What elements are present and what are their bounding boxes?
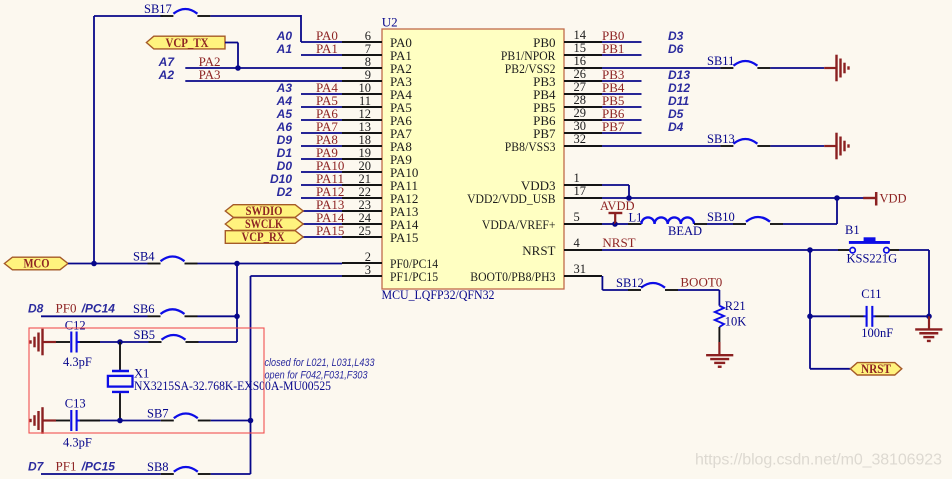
svg-text:D8: D8 [28, 302, 44, 316]
svg-text:A7: A7 [158, 55, 176, 69]
svg-text:C11: C11 [861, 287, 881, 301]
svg-text:D4: D4 [668, 120, 684, 134]
svg-text:15: 15 [574, 41, 587, 55]
svg-text:D1: D1 [277, 146, 293, 160]
svg-text:C12: C12 [65, 318, 86, 332]
svg-text:10: 10 [359, 81, 372, 95]
svg-text:D5: D5 [668, 107, 684, 121]
svg-text:PF0: PF0 [56, 301, 77, 316]
svg-text:PB7: PB7 [602, 119, 625, 134]
svg-text:SB10: SB10 [707, 210, 735, 224]
svg-text:C13: C13 [65, 397, 86, 411]
svg-text:SB17: SB17 [144, 2, 172, 16]
svg-text:3: 3 [365, 263, 371, 277]
svg-text:A5: A5 [276, 107, 293, 121]
svg-text:D9: D9 [277, 133, 293, 147]
svg-text:VCP_RX: VCP_RX [242, 230, 285, 244]
svg-text:D12: D12 [668, 81, 690, 95]
svg-text:21: 21 [359, 172, 372, 186]
svg-text:17: 17 [574, 184, 587, 198]
svg-text:PA3: PA3 [199, 67, 221, 82]
svg-text:SB6: SB6 [133, 302, 155, 316]
svg-text:BEAD: BEAD [668, 224, 702, 238]
svg-text:R21: R21 [725, 299, 746, 313]
svg-text:/PC15: /PC15 [81, 459, 116, 473]
svg-text:VDD: VDD [880, 192, 907, 206]
svg-text:11: 11 [359, 94, 371, 108]
svg-text:SB13: SB13 [707, 132, 735, 146]
svg-text:A4: A4 [276, 94, 293, 108]
svg-text:1: 1 [574, 171, 580, 185]
svg-text:SWDIO: SWDIO [246, 204, 283, 218]
svg-text:23: 23 [359, 198, 372, 212]
svg-text:12: 12 [359, 107, 372, 121]
svg-text:14: 14 [574, 28, 587, 42]
svg-text:18: 18 [359, 133, 372, 147]
svg-text:BOOT0: BOOT0 [680, 275, 722, 290]
svg-text:VCP_TX: VCP_TX [166, 36, 209, 50]
svg-text:2: 2 [365, 250, 371, 264]
svg-text:SB5: SB5 [134, 328, 156, 342]
svg-text:31: 31 [574, 262, 587, 276]
svg-text:D0: D0 [277, 159, 293, 173]
svg-text:open for F042,F031,F303: open for F042,F031,F303 [265, 369, 369, 381]
svg-text:D13: D13 [668, 68, 690, 82]
svg-text:A0: A0 [276, 29, 293, 43]
svg-text:PA1: PA1 [316, 41, 338, 56]
svg-text:4.3pF: 4.3pF [63, 355, 92, 369]
svg-text:PA15: PA15 [316, 223, 344, 238]
svg-text:29: 29 [574, 106, 587, 120]
svg-text:16: 16 [574, 54, 587, 68]
svg-text:32: 32 [574, 132, 587, 146]
svg-text:20: 20 [359, 159, 372, 173]
svg-text:27: 27 [574, 80, 587, 94]
svg-text:9: 9 [365, 68, 371, 82]
svg-text:100nF: 100nF [861, 326, 893, 340]
svg-text:4: 4 [574, 236, 581, 250]
svg-text:B1: B1 [845, 223, 860, 237]
svg-text:BOOT0/PB8/PH3: BOOT0/PB8/PH3 [470, 269, 555, 284]
svg-text:5: 5 [574, 210, 580, 224]
svg-text:6: 6 [365, 29, 371, 43]
svg-text:D7: D7 [28, 459, 45, 473]
svg-text:SB4: SB4 [133, 249, 155, 263]
svg-text:MCU_LQFP32/QFN32: MCU_LQFP32/QFN32 [382, 287, 495, 302]
svg-text:/PC14: /PC14 [81, 302, 116, 316]
svg-text:22: 22 [359, 185, 372, 199]
svg-text:D3: D3 [668, 29, 684, 43]
svg-text:A1: A1 [276, 42, 293, 56]
svg-text:PF1: PF1 [56, 458, 77, 473]
svg-text:4.3pF: 4.3pF [63, 435, 92, 449]
svg-text:VDD2/VDD_USB: VDD2/VDD_USB [467, 191, 556, 206]
svg-text:8: 8 [365, 55, 371, 69]
svg-text:https://blog.csdn.net/m0_38106: https://blog.csdn.net/m0_38106923 [695, 452, 942, 469]
svg-text:PB1: PB1 [602, 41, 624, 56]
svg-text:SWCLK: SWCLK [245, 217, 283, 231]
svg-text:SB12: SB12 [616, 276, 644, 290]
svg-text:L1: L1 [629, 210, 643, 224]
svg-text:PA15: PA15 [390, 230, 418, 245]
svg-text:26: 26 [574, 67, 587, 81]
svg-text:PB8/VSS3: PB8/VSS3 [505, 139, 556, 154]
svg-text:7: 7 [365, 42, 371, 56]
svg-text:MCO: MCO [24, 257, 50, 271]
svg-text:VDDA/VREF+: VDDA/VREF+ [482, 217, 556, 232]
svg-text:SB8: SB8 [147, 460, 169, 474]
svg-text:10K: 10K [725, 314, 747, 328]
svg-text:PF1/PC15: PF1/PC15 [390, 269, 438, 284]
svg-text:U2: U2 [382, 15, 398, 30]
svg-text:A2: A2 [158, 68, 175, 82]
svg-text:D11: D11 [668, 94, 689, 108]
svg-text:D6: D6 [668, 42, 684, 56]
svg-text:19: 19 [359, 146, 372, 160]
svg-text:closed for L021, L031,L433: closed for L021, L031,L433 [265, 357, 376, 369]
svg-text:13: 13 [359, 120, 372, 134]
svg-text:NRST: NRST [861, 362, 892, 376]
svg-text:SB7: SB7 [147, 406, 169, 420]
svg-text:SB11: SB11 [707, 54, 734, 68]
svg-text:KSS221G: KSS221G [847, 252, 898, 266]
svg-text:25: 25 [359, 224, 372, 238]
svg-text:A3: A3 [276, 81, 293, 95]
svg-text:NRST: NRST [602, 235, 635, 250]
svg-text:24: 24 [359, 211, 372, 225]
svg-text:NRST: NRST [522, 243, 555, 258]
svg-text:A6: A6 [276, 120, 293, 134]
svg-text:30: 30 [574, 119, 587, 133]
svg-text:D2: D2 [277, 185, 293, 199]
svg-text:D10: D10 [270, 172, 292, 186]
svg-text:28: 28 [574, 93, 587, 107]
